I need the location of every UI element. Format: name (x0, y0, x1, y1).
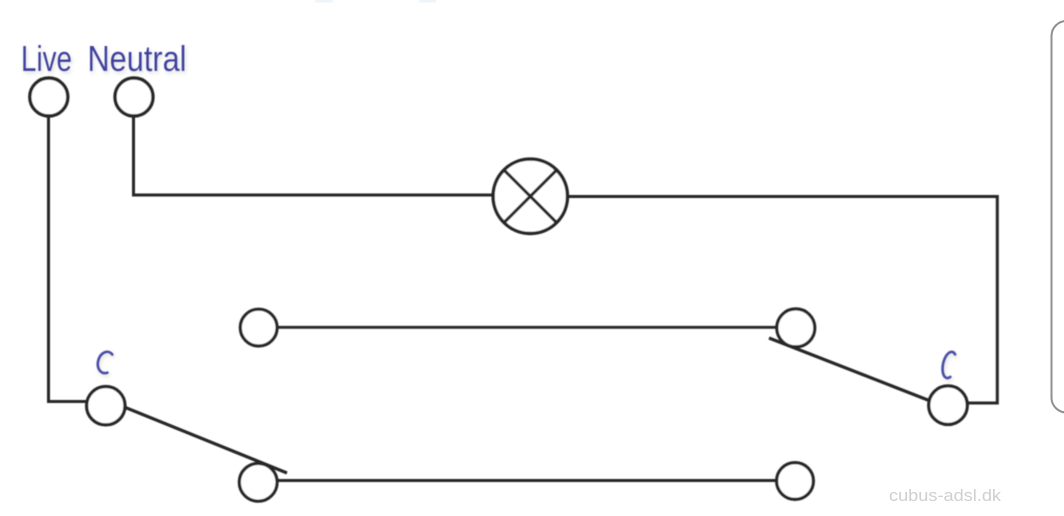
wire: lamp LP1 right side across, down and to switch S2 common (530, 197, 997, 404)
terminal Live (30, 78, 68, 116)
switch S2 terminal L2 (777, 463, 814, 500)
svg-text:cubus-adsl.dk: cubus-adsl.dk (889, 486, 1002, 505)
switch S1 terminal L2 (239, 463, 277, 501)
decorative rounded panel at right edge (1052, 21, 1064, 413)
switch S1 lever (from C tangent over L2 terminal) (125, 407, 287, 473)
switch S2 terminal L1 (777, 309, 815, 347)
switch S2 lever (from C tangent under L1 terminal) (769, 338, 931, 401)
wire: strapper bottom between S1 L2 and S2 L2 (258, 479, 795, 482)
svg-text:Neutral: Neutral (88, 38, 187, 79)
terminal Neutral (115, 78, 153, 116)
lamp LP1 (493, 159, 567, 233)
switch S1 common terminal C (87, 387, 125, 425)
label C at switch S1 (98, 352, 112, 373)
cropped title remnant marks (315, 0, 436, 3)
wire: Live feed down to switch S1 common (49, 115, 107, 402)
wire: Neutral down and across to lamp LP1 (134, 115, 531, 195)
wire: strapper top between S1 L1 and S2 L1 (259, 326, 796, 329)
label C at switch S2 (943, 352, 956, 378)
label C at switch S2 (soft shadow) (944, 354, 957, 380)
label C at switch S1 (soft shadow) (99, 354, 113, 375)
switch S2 common terminal C (929, 386, 968, 425)
svg-text:Live: Live (21, 38, 72, 79)
switch S1 terminal L1 (240, 309, 277, 346)
